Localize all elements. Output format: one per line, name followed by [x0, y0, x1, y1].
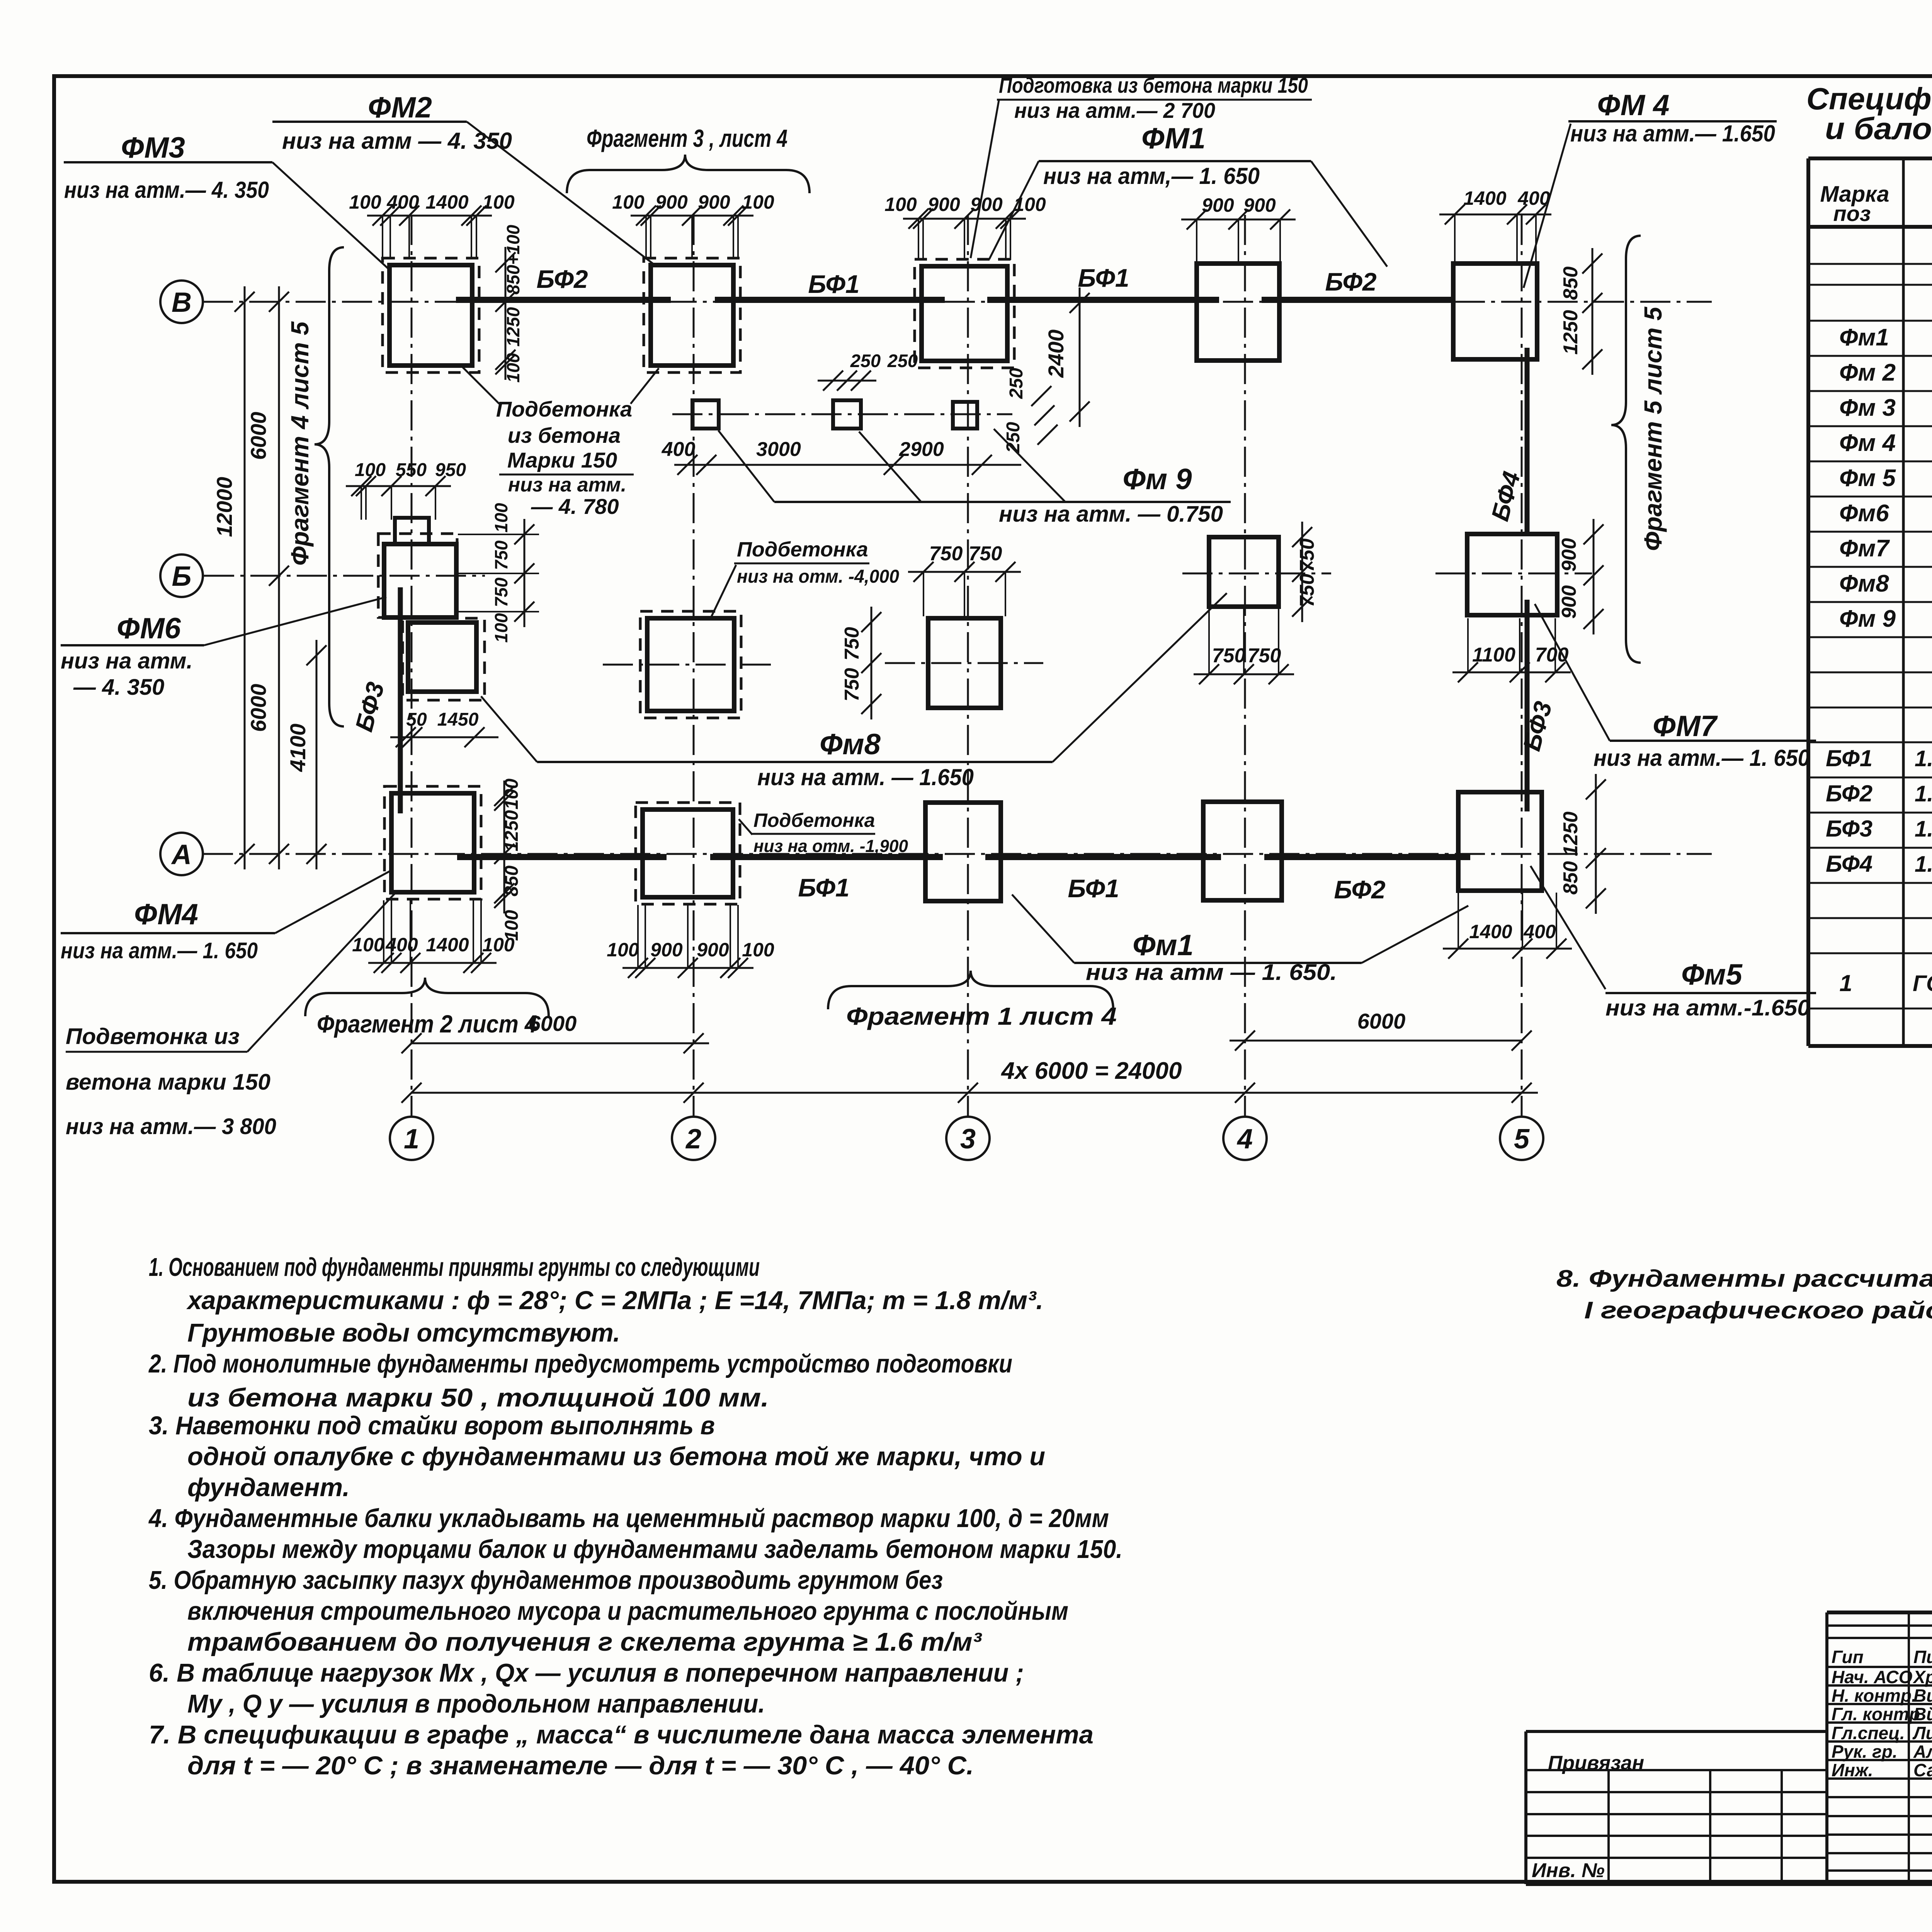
svg-text:низ на отм. -1,900: низ на отм. -1,900	[753, 836, 908, 856]
svg-text:1450: 1450	[437, 709, 479, 730]
svg-text:А: А	[171, 839, 192, 870]
svg-text:В: В	[172, 287, 192, 318]
svg-text:2400: 2400	[1044, 330, 1068, 378]
svg-text:Спецификация к схеме распо: Спецификация к схеме расположения фундам…	[1806, 82, 1932, 116]
svg-text:100: 100	[502, 910, 522, 941]
svg-text:2: 2	[685, 1124, 701, 1155]
svg-text:1250: 1250	[1560, 310, 1582, 355]
svg-text:100: 100	[612, 191, 645, 213]
svg-text:400: 400	[1517, 187, 1550, 209]
svg-text:БФ4: БФ4	[1826, 851, 1872, 877]
svg-text:ветона марки 150: ветона марки 150	[66, 1070, 270, 1095]
svg-text:900: 900	[970, 194, 1003, 215]
svg-text:900: 900	[1558, 538, 1580, 572]
svg-text:750: 750	[1296, 574, 1318, 607]
svg-text:Нач. АСО: Нач. АСО	[1832, 1667, 1913, 1687]
svg-text:Фм 4: Фм 4	[1839, 430, 1896, 456]
svg-text:низ на атм — 4. 350: низ на атм — 4. 350	[282, 128, 512, 154]
svg-text:3000: 3000	[756, 438, 801, 461]
svg-text:низ на атм.: низ на атм.	[508, 474, 626, 496]
svg-text:БФ1: БФ1	[1078, 264, 1129, 292]
svg-text:100: 100	[352, 934, 384, 956]
svg-text:Инж.: Инж.	[1832, 1760, 1873, 1780]
svg-text:включения строительного: включения строительного мусора и растите…	[187, 1597, 1068, 1626]
svg-text:Алехова: Алехова	[1913, 1742, 1932, 1762]
svg-text:Фм1: Фм1	[1839, 324, 1889, 351]
svg-text:Подбетонка: Подбетонка	[737, 538, 868, 561]
svg-text:100: 100	[491, 613, 511, 643]
svg-text:4х 6000 = 24000: 4х 6000 = 24000	[1000, 1058, 1182, 1084]
svg-text:из бетона: из бетона	[508, 423, 621, 447]
svg-text:Подветонка из: Подветонка из	[66, 1024, 240, 1049]
svg-text:100: 100	[491, 503, 511, 532]
svg-text:4100: 4100	[286, 724, 310, 772]
svg-text:1250: 1250	[1560, 811, 1582, 856]
svg-text:6000: 6000	[246, 412, 270, 460]
svg-text:низ на атм.— 1. 650: низ на атм.— 1. 650	[61, 938, 258, 963]
svg-text:1. 415 -1: 1. 415 -1	[1915, 781, 1932, 806]
svg-text:поз: поз	[1833, 201, 1871, 226]
svg-text:8. Фундаменты рассчитаны: 8. Фундаменты рассчитаны на нагрузки: ск…	[1556, 1265, 1932, 1292]
svg-text:Привязан: Привязан	[1548, 1752, 1644, 1774]
svg-text:Н. контр.: Н. контр.	[1832, 1685, 1917, 1706]
svg-text:БФ3: БФ3	[1826, 816, 1872, 842]
svg-text:низ на атм,— 1. 650: низ на атм,— 1. 650	[1043, 163, 1260, 189]
svg-text:Хрупало: Хрупало	[1912, 1667, 1932, 1687]
svg-text:100: 100	[1014, 194, 1046, 215]
svg-text:Фм 5: Фм 5	[1839, 465, 1896, 492]
svg-text:Гл. контр: Гл. контр	[1832, 1704, 1920, 1724]
svg-text:низ на атм.-1.650: низ на атм.-1.650	[1605, 995, 1810, 1020]
svg-text:3. Наветонки под стайки в: 3. Наветонки под стайки ворот выполнять …	[149, 1411, 715, 1440]
svg-text:БФ2: БФ2	[1334, 875, 1386, 904]
svg-text:1400: 1400	[425, 191, 468, 213]
svg-text:750: 750	[1296, 539, 1318, 572]
svg-text:5: 5	[1514, 1124, 1530, 1155]
svg-text:900: 900	[650, 939, 683, 961]
svg-text:БФ1: БФ1	[798, 873, 849, 902]
svg-text:750: 750	[841, 668, 863, 702]
svg-text:1: 1	[1839, 970, 1852, 996]
svg-text:100: 100	[502, 779, 522, 810]
svg-text:— 4. 780: — 4. 780	[531, 494, 619, 519]
svg-text:1250: 1250	[503, 307, 523, 347]
svg-text:Фрагмент 3 , лист 4: Фрагмент 3 , лист 4	[587, 124, 787, 152]
svg-text:100: 100	[742, 191, 774, 213]
svg-text:12000: 12000	[212, 477, 236, 537]
svg-text:Гип: Гип	[1832, 1647, 1864, 1667]
svg-text:900: 900	[1243, 194, 1276, 216]
svg-text:БФ1: БФ1	[1068, 874, 1119, 903]
svg-text:Инв. №: Инв. №	[1532, 1859, 1605, 1882]
svg-text:из бетона марки 50 ,: из бетона марки 50 , толщиной 100 мм.	[187, 1383, 769, 1412]
svg-text:400: 400	[386, 191, 419, 213]
svg-text:Фм 9: Фм 9	[1839, 605, 1896, 632]
svg-text:Фм6: Фм6	[1839, 500, 1889, 527]
svg-text:850: 850	[502, 866, 522, 896]
svg-text:Фм8: Фм8	[1839, 570, 1889, 597]
svg-text:900: 900	[698, 191, 730, 213]
svg-text:Фм1: Фм1	[1133, 929, 1194, 962]
svg-text:характеристиками : ф = 28°;: характеристиками : ф = 28°; С = 2МПа ; Е…	[186, 1286, 1043, 1315]
svg-text:Фрагмент 4 лист 5: Фрагмент 4 лист 5	[286, 321, 314, 566]
svg-text:трамбованием до получе: трамбованием до получения г скелета грун…	[187, 1628, 982, 1656]
svg-text:БФ2: БФ2	[536, 265, 588, 293]
svg-text:400: 400	[1523, 921, 1556, 942]
svg-text:Зазоры между торцами: Зазоры между торцами балок и фундаментам…	[187, 1535, 1122, 1564]
svg-text:750: 750	[491, 540, 511, 570]
svg-text:850: 850	[1560, 267, 1582, 300]
svg-text:ФМ 4: ФМ 4	[1597, 89, 1670, 122]
svg-text:1250: 1250	[502, 810, 522, 851]
svg-text:750: 750	[841, 627, 863, 661]
svg-text:Марки 150: Марки 150	[507, 448, 617, 472]
svg-text:Рук. гр.: Рук. гр.	[1832, 1742, 1898, 1762]
svg-text:фундамент.: фундамент.	[187, 1473, 350, 1502]
svg-text:низ на атм.— 3 800: низ на атм.— 3 800	[66, 1114, 276, 1139]
svg-text:Винклер: Винклер	[1913, 1685, 1932, 1706]
svg-text:Фрагмент 5 лист 5: Фрагмент 5 лист 5	[1639, 306, 1667, 551]
svg-text:Сапрошина: Сапрошина	[1913, 1760, 1932, 1780]
svg-text:ФМ1: ФМ1	[1141, 122, 1206, 155]
svg-text:100: 100	[503, 353, 523, 383]
svg-text:Фм7: Фм7	[1839, 535, 1890, 562]
svg-text:900: 900	[697, 939, 729, 961]
svg-text:850+100: 850+100	[503, 224, 523, 294]
svg-text:и балок фундаментных б: и балок фундаментных балок .	[1825, 111, 1932, 146]
svg-text:1: 1	[404, 1124, 419, 1155]
svg-text:одной опалубке с фун: одной опалубке с фундаментами из бетона …	[187, 1442, 1045, 1471]
svg-text:для t = — 20° С ; в: для t = — 20° С ; в знаменателе — для t …	[187, 1751, 974, 1780]
svg-text:4: 4	[1236, 1124, 1253, 1155]
svg-text:ФМ3: ФМ3	[121, 131, 185, 164]
svg-text:БФ1: БФ1	[1826, 745, 1872, 771]
svg-text:5. Обратную засыпку пазу: 5. Обратную засыпку пазух фундаментов пр…	[149, 1566, 943, 1595]
svg-text:Фрагмент 1 лист 4: Фрагмент 1 лист 4	[846, 1002, 1117, 1030]
svg-text:низ на атм.— 1. 650: низ на атм.— 1. 650	[1594, 745, 1810, 771]
svg-text:900: 900	[1202, 194, 1234, 216]
svg-text:ФМ7: ФМ7	[1653, 710, 1718, 743]
svg-text:Вйнклер: Вйнклер	[1913, 1704, 1932, 1724]
svg-text:100: 100	[607, 939, 639, 961]
svg-text:2. Под монолитные фундам: 2. Под монолитные фундаменты предусмотре…	[148, 1349, 1012, 1378]
svg-text:3: 3	[960, 1124, 976, 1155]
svg-text:1. 415 -1: 1. 415 -1	[1915, 746, 1932, 771]
svg-text:низ на атм. — 0.750: низ на атм. — 0.750	[999, 502, 1223, 527]
svg-text:низ на атм.— 2 700: низ на атм.— 2 700	[1014, 98, 1215, 122]
svg-text:БФ2: БФ2	[1325, 267, 1377, 296]
svg-text:400: 400	[662, 438, 696, 461]
svg-text:100: 100	[884, 194, 917, 215]
svg-text:Фм 2: Фм 2	[1839, 359, 1896, 386]
svg-text:750: 750	[1248, 645, 1281, 667]
svg-text:Пивторак: Пивторак	[1913, 1647, 1932, 1667]
svg-text:1100: 1100	[1472, 644, 1515, 666]
svg-text:250: 250	[1006, 368, 1027, 399]
svg-text:Фм5: Фм5	[1681, 958, 1743, 991]
svg-text:6000: 6000	[1357, 1009, 1406, 1033]
svg-text:100: 100	[482, 191, 515, 213]
svg-text:750: 750	[969, 543, 1002, 565]
svg-text:100: 100	[742, 939, 774, 961]
svg-text:низ на атм.— 4. 350: низ на атм.— 4. 350	[64, 177, 269, 203]
svg-text:100: 100	[349, 191, 381, 213]
svg-text:1400: 1400	[1469, 921, 1512, 942]
svg-text:250: 250	[887, 350, 918, 371]
svg-text:ФМ2: ФМ2	[368, 91, 432, 124]
svg-text:Подбетонка: Подбетонка	[753, 810, 875, 831]
svg-text:Б: Б	[172, 561, 192, 592]
svg-text:низ на атм.— 1.650: низ на атм.— 1.650	[1570, 121, 1775, 146]
svg-text:1400: 1400	[1463, 187, 1506, 209]
svg-text:Му , Q у — усилия в: Му , Q у — усилия в продольном направлен…	[187, 1689, 765, 1718]
svg-text:4. Фундаментные балки: 4. Фундаментные балки укладывать на цеме…	[148, 1504, 1109, 1533]
svg-text:I географического района: I географического района, вес снегового …	[1584, 1297, 1932, 1324]
svg-text:2900: 2900	[899, 438, 944, 461]
svg-text:900: 900	[655, 191, 688, 213]
svg-text:Подготовка из бетона марки: Подготовка из бетона марки 150	[999, 73, 1308, 97]
svg-text:6000: 6000	[246, 684, 270, 732]
svg-text:Фм 3: Фм 3	[1839, 395, 1896, 421]
svg-text:550: 550	[396, 460, 427, 480]
svg-text:ФМ6: ФМ6	[117, 612, 181, 645]
svg-text:750: 750	[491, 577, 511, 607]
svg-text:1. 415 -1: 1. 415 -1	[1915, 852, 1932, 877]
svg-text:1. 415 -1: 1. 415 -1	[1915, 816, 1932, 842]
svg-text:низ на атм — 1. 650.: низ на атм — 1. 650.	[1086, 960, 1337, 985]
svg-text:900: 900	[928, 194, 960, 215]
svg-text:— 4. 350: — 4. 350	[73, 675, 164, 700]
svg-text:низ на атм. — 1.650: низ на атм. — 1.650	[757, 764, 974, 790]
svg-text:низ на атм.: низ на атм.	[61, 648, 193, 673]
svg-text:750: 750	[929, 543, 963, 565]
svg-text:Фм8: Фм8	[820, 728, 881, 761]
svg-text:400: 400	[385, 934, 418, 956]
svg-text:Лисичкин: Лисичкин	[1912, 1723, 1932, 1743]
svg-text:250: 250	[850, 350, 881, 371]
svg-text:7. В спецификации: 7. В спецификации в графе „ масса“ в чис…	[149, 1720, 1094, 1749]
svg-text:750: 750	[1212, 645, 1246, 667]
svg-text:Гл.спец.: Гл.спец.	[1832, 1723, 1905, 1743]
svg-text:БФ2: БФ2	[1826, 781, 1872, 806]
svg-text:1400: 1400	[426, 934, 469, 956]
svg-text:ФМ4: ФМ4	[134, 898, 198, 931]
svg-text:50: 50	[406, 709, 427, 730]
svg-text:Грунтовые воды отсутству: Грунтовые воды отсутствуют.	[187, 1318, 620, 1347]
svg-text:950: 950	[435, 460, 466, 480]
svg-text:низ на отм. -4,000: низ на отм. -4,000	[737, 566, 899, 587]
svg-text:Подбетонка: Подбетонка	[496, 397, 632, 421]
svg-text:6. В таблице нагрузок: 6. В таблице нагрузок Мх , Qх — усилия в…	[149, 1658, 1024, 1687]
svg-text:ГОСТ 24379 1- 80: ГОСТ 24379 1- 80	[1913, 971, 1932, 996]
svg-text:Фм 9: Фм 9	[1123, 463, 1192, 496]
svg-text:850: 850	[1560, 861, 1582, 895]
svg-text:900: 900	[1558, 585, 1580, 619]
svg-text:1. Основанием под фунда: 1. Основанием под фундаменты приняты гру…	[149, 1253, 760, 1282]
svg-text:Фрагмент 2 лист 4: Фрагмент 2 лист 4	[317, 1010, 537, 1038]
svg-text:100: 100	[355, 460, 386, 480]
svg-text:БФ1: БФ1	[808, 270, 859, 298]
